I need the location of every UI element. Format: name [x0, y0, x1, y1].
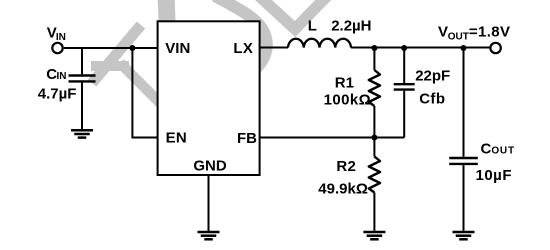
svg-text:LX: LX	[233, 40, 253, 57]
wire R1 bottom to FB node to R2 top	[373, 106, 375, 157]
svg-text:2.2µH: 2.2µH	[331, 17, 371, 34]
node VOUT/R1 junction	[371, 45, 377, 51]
svg-text:R2: R2	[336, 158, 356, 175]
svg-text:22pF: 22pF	[415, 68, 450, 85]
IC U1 (buck regulator, pins VIN LX EN FB GND)	[158, 21, 260, 175]
terminal VIN	[52, 43, 62, 53]
capacitor COUT	[449, 158, 478, 164]
svg-text:FB: FB	[237, 130, 257, 147]
resistor R2	[369, 157, 380, 193]
wire GND pin to ground	[208, 175, 210, 231]
node VOUT/COUT junction	[461, 45, 467, 51]
wire VOUT rail to R1 top	[373, 48, 375, 70]
svg-text:4.7µF: 4.7µF	[38, 86, 77, 103]
wire COUT bottom to ground	[463, 165, 465, 231]
wire FB net: FB pin to divider node	[260, 137, 405, 139]
wire VIN rail to EN pin	[132, 47, 157, 138]
capacitor CIN	[69, 76, 96, 82]
inductor L	[288, 39, 351, 48]
svg-text:GND: GND	[193, 158, 227, 175]
wire LX pin to inductor	[260, 47, 288, 49]
svg-text:L: L	[308, 17, 317, 34]
wire VOUT rail to Cfb top	[403, 48, 405, 83]
wire VOUT rail to COUT top	[463, 48, 465, 157]
resistor R1	[369, 70, 380, 106]
wire CIN to ground	[81, 83, 83, 130]
ground (R2)	[363, 232, 385, 239]
wire R2 bottom to ground	[373, 193, 375, 231]
svg-text:49.9kΩ: 49.9kΩ	[318, 181, 368, 198]
svg-text:10µF: 10µF	[476, 167, 513, 184]
node FB junction	[371, 135, 377, 141]
svg-text:R1: R1	[335, 74, 354, 91]
terminal VOUT	[490, 43, 500, 53]
ground (GND pin)	[198, 232, 220, 239]
wire CIN branch down from VIN rail	[81, 48, 83, 74]
wire FB net up to Cfb bottom	[403, 91, 405, 138]
node VIN/EN junction	[129, 45, 135, 51]
wire VOUT rail: inductor to VOUT terminal	[351, 47, 490, 49]
node junction dots	[129, 45, 466, 141]
wire VIN rail: terminal to VIN pin	[64, 47, 158, 49]
ground (COUT)	[453, 232, 475, 239]
node VOUT/Cfb junction	[401, 45, 407, 51]
capacitor Cfb	[394, 84, 415, 89]
watermark	[91, 0, 329, 119]
svg-text:Cfb: Cfb	[419, 90, 445, 107]
svg-text:EN: EN	[166, 129, 187, 146]
ground (CIN)	[71, 130, 93, 137]
svg-text:VIN: VIN	[165, 40, 190, 57]
svg-text:100kΩ: 100kΩ	[324, 92, 371, 109]
